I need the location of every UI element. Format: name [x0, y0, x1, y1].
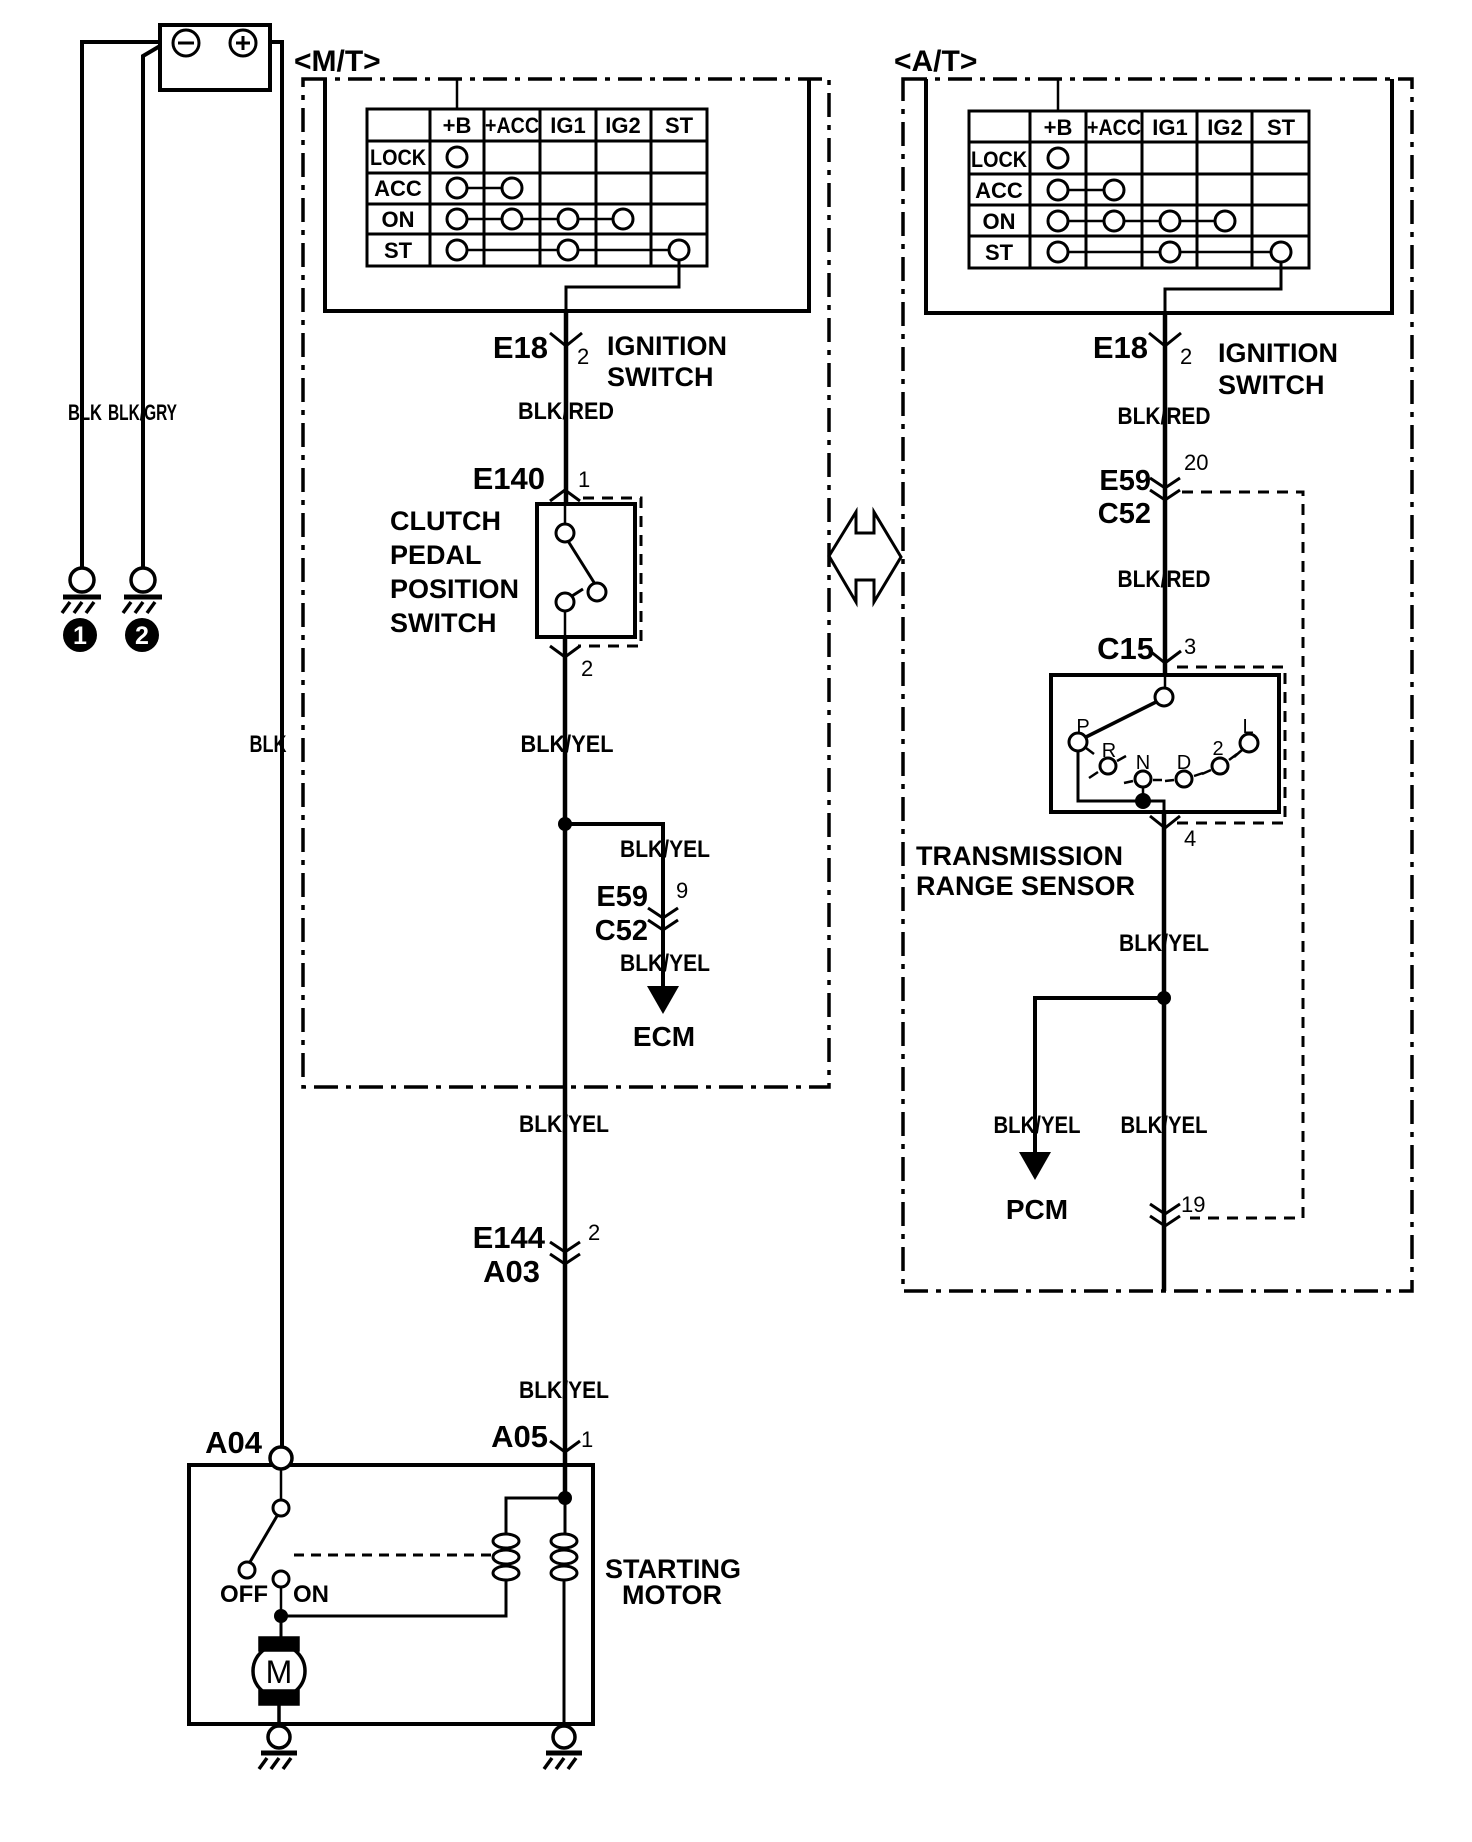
svg-text:<M/T>: <M/T> — [294, 45, 381, 78]
svg-text:C52: C52 — [1098, 498, 1151, 530]
svg-text:4: 4 — [1184, 826, 1196, 851]
switch contacts ST row M/T — [447, 240, 689, 260]
wire contact to pull-in coil — [281, 1580, 506, 1616]
wire BLK battery to ground 1 — [82, 42, 160, 568]
svg-text:A05: A05 — [491, 1419, 548, 1454]
ground marker 1 — [63, 618, 97, 652]
svg-text:19: 19 — [1181, 1192, 1205, 1217]
node solenoid contact — [274, 1609, 288, 1623]
connector E18 A/T — [1149, 333, 1181, 346]
solenoid switch — [239, 1469, 289, 1616]
svg-text:+ACC: +ACC — [485, 113, 539, 138]
arrow to ECM — [647, 986, 679, 1014]
svg-text:+B: +B — [443, 113, 472, 138]
wire contact to motor — [280, 1616, 283, 1638]
hold-in coil — [551, 1498, 577, 1726]
svg-text:E18: E18 — [493, 330, 548, 365]
branch wire to PCM — [1035, 998, 1164, 1152]
svg-text:BLK/YEL: BLK/YEL — [519, 1377, 609, 1404]
junction node A/T — [1157, 991, 1171, 1005]
ignition switch table M/T — [367, 109, 707, 266]
wire BLK/GRY battery to ground 2 — [143, 46, 160, 568]
svg-text:1: 1 — [73, 622, 87, 650]
table header labels A/T — [971, 115, 1296, 265]
svg-text:BLK/YEL: BLK/YEL — [994, 1112, 1081, 1139]
switch contacts ON row M/T — [447, 209, 633, 229]
svg-text:L: L — [1242, 716, 1253, 738]
mechanical link dashed — [294, 1554, 492, 1557]
svg-text:E18: E18 — [1093, 330, 1148, 365]
connector E140 pin 2 — [550, 646, 580, 657]
svg-text:A04: A04 — [205, 1425, 263, 1460]
svg-text:BLK/GRY: BLK/GRY — [108, 400, 177, 425]
TRS contact D — [1176, 771, 1192, 787]
clutch pedal position switch box — [537, 504, 635, 637]
svg-text:PCM: PCM — [1006, 1194, 1068, 1225]
switch contacts ACC row A/T — [1048, 180, 1124, 200]
TRS output node — [1135, 793, 1151, 809]
TRS contact L — [1240, 734, 1258, 752]
svg-text:BLK/YEL: BLK/YEL — [519, 1111, 609, 1138]
svg-text:IG2: IG2 — [1207, 115, 1242, 140]
svg-text:BLK: BLK — [68, 400, 102, 425]
svg-text:SWITCH: SWITCH — [1218, 370, 1324, 400]
transmission assembly dashed outline — [1182, 492, 1303, 1218]
svg-text:ECM: ECM — [633, 1021, 695, 1052]
svg-text:MOTOR: MOTOR — [622, 1580, 722, 1610]
svg-text:LOCK: LOCK — [971, 147, 1027, 172]
svg-text:+ACC: +ACC — [1087, 115, 1141, 140]
svg-text:3: 3 — [1184, 634, 1196, 659]
svg-text:ST: ST — [985, 240, 1014, 265]
M/T boundary box (dash-dot) — [303, 79, 829, 1087]
transmission range sensor dashed housing — [1177, 667, 1285, 823]
svg-text:BLK/RED: BLK/RED — [518, 398, 614, 425]
ignition switch box A/T — [926, 79, 1392, 313]
svg-text:N: N — [1136, 752, 1150, 774]
svg-text:ST: ST — [665, 113, 694, 138]
arrow to PCM — [1019, 1152, 1051, 1180]
svg-text:1: 1 — [578, 467, 590, 492]
svg-text:PEDAL: PEDAL — [390, 540, 482, 570]
svg-text:RANGE SENSOR: RANGE SENSOR — [916, 871, 1135, 901]
connector E18 M/T — [550, 333, 582, 346]
svg-text:E144: E144 — [473, 1220, 546, 1255]
svg-text:LOCK: LOCK — [370, 145, 426, 170]
wire BLK battery positive to A04 — [270, 42, 282, 1447]
svg-text:ACC: ACC — [975, 178, 1023, 203]
wire ST output A/T — [1165, 262, 1281, 313]
ground marker 2 — [125, 618, 159, 652]
svg-text:E140: E140 — [473, 461, 545, 496]
connector C15 pin 4 — [1150, 816, 1180, 828]
transmission range sensor box — [1051, 675, 1279, 812]
wire +B feed A/T — [1057, 79, 1060, 111]
svg-text:ON: ON — [293, 1581, 329, 1608]
svg-text:BLK/YEL: BLK/YEL — [620, 836, 710, 863]
svg-text:2: 2 — [1180, 344, 1192, 369]
svg-text:D: D — [1177, 752, 1191, 774]
switch contacts ACC row M/T — [447, 178, 522, 198]
svg-text:IG2: IG2 — [605, 113, 640, 138]
clutch switch contacts — [556, 504, 606, 637]
junction node M/T — [558, 817, 572, 831]
svg-text:2: 2 — [135, 622, 149, 650]
node coil feed A05 — [558, 1491, 572, 1505]
svg-text:<A/T>: <A/T> — [894, 45, 977, 78]
svg-text:OFF: OFF — [220, 1581, 268, 1608]
svg-text:BLK/YEL: BLK/YEL — [620, 950, 710, 977]
svg-text:1: 1 — [581, 1427, 593, 1452]
svg-text:CLUTCH: CLUTCH — [390, 506, 501, 536]
wire ST output M/T — [566, 260, 679, 311]
wire +B feed M/T — [456, 79, 459, 109]
svg-text:BLK/RED: BLK/RED — [1118, 403, 1211, 430]
svg-text:+B: +B — [1044, 115, 1073, 140]
ground starting motor right — [544, 1726, 582, 1769]
TRS contact N — [1135, 771, 1151, 787]
svg-text:ACC: ACC — [374, 176, 422, 201]
battery — [160, 25, 270, 90]
wire main vertical M/T lower — [563, 637, 568, 1498]
svg-text:BLK/RED: BLK/RED — [1118, 566, 1211, 593]
svg-text:IG1: IG1 — [1152, 115, 1187, 140]
svg-text:IG1: IG1 — [550, 113, 585, 138]
svg-text:E59: E59 — [596, 881, 648, 913]
branch wire to ECM — [565, 824, 663, 986]
switch contacts ON row A/T — [1048, 211, 1235, 231]
pull-in coil — [493, 1498, 565, 1580]
M/T A/T alternative double arrow — [829, 512, 901, 602]
A/T boundary box (dash-dot) — [903, 79, 1412, 1291]
ground G2 — [123, 568, 162, 613]
TRS selector blade — [1086, 702, 1156, 737]
svg-text:ST: ST — [384, 238, 413, 263]
svg-text:2: 2 — [1212, 738, 1223, 760]
svg-text:TRANSMISSION: TRANSMISSION — [916, 841, 1123, 871]
svg-text:2: 2 — [588, 1220, 600, 1245]
svg-text:POSITION: POSITION — [390, 574, 519, 604]
svg-text:A03: A03 — [483, 1254, 540, 1289]
ignition switch table A/T — [969, 111, 1309, 268]
svg-text:IGNITION: IGNITION — [1218, 338, 1338, 368]
ground G1 — [62, 568, 101, 613]
ground starting motor left — [259, 1726, 297, 1769]
svg-text:2: 2 — [581, 656, 593, 681]
svg-text:BLK/YEL: BLK/YEL — [521, 731, 614, 758]
switch contacts LOCK row A/T — [1048, 148, 1068, 168]
svg-text:C52: C52 — [595, 915, 648, 947]
ignition switch box M/T — [325, 79, 809, 311]
svg-text:ON: ON — [983, 209, 1016, 234]
TRS contact P — [1069, 733, 1087, 751]
svg-text:2: 2 — [577, 344, 589, 369]
TRS wire P to output — [1078, 751, 1143, 801]
svg-text:SWITCH: SWITCH — [607, 362, 713, 392]
wire main vertical A/T lower — [1162, 812, 1167, 1291]
motor M — [253, 1638, 305, 1726]
svg-text:C15: C15 — [1097, 631, 1154, 666]
svg-text:SWITCH: SWITCH — [390, 608, 496, 638]
svg-text:R: R — [1102, 740, 1116, 762]
svg-text:BLK/YEL: BLK/YEL — [1119, 930, 1209, 957]
switch contacts ST row A/T — [1048, 242, 1291, 262]
TRS contact R — [1100, 758, 1116, 774]
wire main vertical A/T upper — [1163, 313, 1168, 675]
connector 19 A/T — [1150, 1204, 1180, 1214]
wire main vertical M/T upper — [564, 311, 569, 504]
svg-text:20: 20 — [1184, 450, 1208, 475]
svg-text:9: 9 — [676, 878, 688, 903]
starting motor box — [189, 1465, 593, 1724]
svg-text:BLK/YEL: BLK/YEL — [1121, 1112, 1208, 1139]
TRS contact 2 — [1212, 758, 1228, 774]
clutch pedal position switch dashed housing — [578, 498, 641, 646]
table header labels M/T — [370, 113, 694, 263]
svg-text:P: P — [1076, 716, 1089, 738]
svg-text:M: M — [266, 1654, 293, 1690]
svg-text:E59: E59 — [1099, 465, 1151, 497]
TRS common contact — [1164, 675, 1167, 688]
svg-text:ST: ST — [1267, 115, 1296, 140]
svg-text:BLK: BLK — [250, 731, 287, 758]
svg-text:IGNITION: IGNITION — [607, 331, 727, 361]
svg-text:ON: ON — [382, 207, 415, 232]
switch contacts LOCK row M/T — [447, 147, 467, 167]
